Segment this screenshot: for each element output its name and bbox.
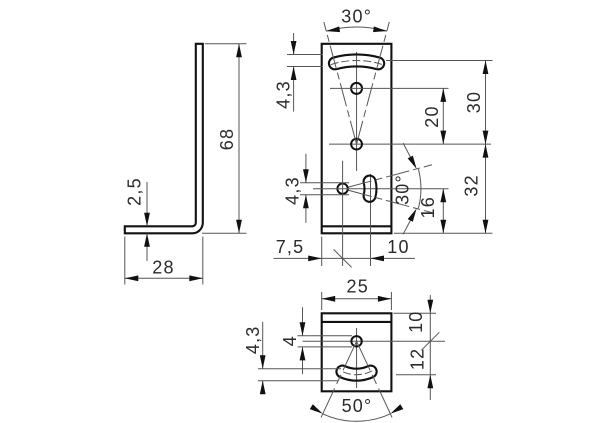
- dimension 68 extension lines: [205, 43, 247, 45]
- dimension 7,5 / 10 arrows and slash: [308, 256, 322, 262]
- svg-text:28: 28: [152, 258, 174, 278]
- dimension 4 line and arrows: [302, 307, 304, 335]
- dimension 28 line and arrows: [125, 277, 203, 279]
- dimension 4,3 hole line and arrows: [305, 154, 307, 183]
- angle 30deg bottom leader arrows: [403, 143, 412, 159]
- vertical centerline through pivot: [356, 52, 358, 171]
- svg-text:68: 68: [217, 128, 237, 150]
- svg-text:7,5: 7,5: [276, 237, 305, 257]
- pivot hole: [351, 139, 362, 150]
- oval slot outline: [364, 176, 377, 202]
- svg-text:10: 10: [387, 237, 409, 257]
- dimension 4,3 bottom line and arrows: [262, 322, 264, 369]
- dimension 32 line and arrows: [485, 144, 487, 233]
- dimension 7,5 and 10 extension lines: [321, 237, 323, 267]
- dimension 4,3 bottom extension lines: [258, 368, 341, 370]
- svg-text:30°: 30°: [393, 174, 413, 205]
- svg-text:12: 12: [408, 348, 428, 370]
- bottom holes horizontal centerline: [313, 188, 449, 190]
- svg-text:4,3: 4,3: [283, 176, 303, 205]
- angle 30deg bottom arc: [418, 169, 420, 208]
- svg-text:4,3: 4,3: [273, 80, 293, 109]
- angle 30deg top arrows: [326, 26, 340, 32]
- oval slot vertical centerline: [370, 174, 372, 266]
- dimension 68 line and arrows: [238, 44, 240, 234]
- dimension 10/12 extension lines: [393, 312, 436, 314]
- svg-text:25: 25: [346, 277, 368, 297]
- dimension 28 extension lines: [124, 237, 126, 285]
- bottom-view curved slot outline: [336, 366, 376, 381]
- svg-text:30: 30: [464, 91, 484, 113]
- dashed angle lines from pivot to top: [324, 22, 357, 144]
- dimension 30 line and arrows: [485, 61, 487, 145]
- L-bracket side-view outline: [125, 44, 203, 234]
- svg-text:16: 16: [418, 196, 438, 218]
- top small hole: [351, 83, 362, 94]
- bottom-left hole: [337, 184, 347, 194]
- extension line plate bottom right: [394, 232, 493, 234]
- dimension 4,3 hole extension lines: [300, 182, 349, 184]
- bottom-view hole: [351, 336, 361, 346]
- bottom-view dashed angle lines: [319, 341, 356, 421]
- svg-text:4,3: 4,3: [243, 325, 263, 354]
- dimension 10/12 line arrows slash: [429, 295, 431, 400]
- dimension 2,5 lines and arrows: [146, 182, 148, 226]
- horizontal centerline through pivot: [329, 143, 491, 145]
- svg-text:2,5: 2,5: [125, 177, 145, 206]
- dimension 16 line and arrows: [442, 189, 444, 234]
- dimension 20 line and arrows: [442, 88, 444, 144]
- curved slot centerline arc: [331, 60, 383, 64]
- curved slot outline: [329, 54, 384, 69]
- svg-text:4: 4: [280, 335, 300, 346]
- front-view plate outline: [322, 44, 392, 234]
- front-view bend line: [322, 225, 392, 227]
- svg-text:50°: 50°: [342, 396, 373, 416]
- bottom-view bend line: [322, 321, 392, 323]
- svg-text:20: 20: [422, 105, 442, 127]
- bottom-left hole vertical centerline: [342, 161, 344, 266]
- extension line slot center right: [386, 60, 493, 62]
- angle 30deg top arc: [326, 27, 387, 31]
- angle 50deg arrows: [390, 404, 403, 414]
- dimension 4 extension lines: [298, 335, 353, 337]
- svg-text:30°: 30°: [341, 6, 372, 26]
- svg-text:32: 32: [462, 174, 482, 196]
- dimension 7,5 / 10 line: [274, 257, 416, 259]
- centerline through top small hole: [330, 87, 449, 89]
- dimension 25 line and arrows: [322, 298, 392, 300]
- angle 50deg arc: [323, 414, 391, 421]
- bottom-view hole centerlines: [303, 340, 446, 342]
- dimension 4,3 slot extension lines: [287, 54, 323, 56]
- dashed angle lines from bottom hole: [348, 165, 432, 187]
- dimension 25 extension lines: [321, 292, 323, 310]
- dimension 4,3 slot line and arrows: [293, 33, 295, 55]
- svg-text:10: 10: [406, 310, 426, 332]
- bottom-view slot centerline arc: [341, 371, 372, 375]
- bottom-view outline: [322, 313, 392, 391]
